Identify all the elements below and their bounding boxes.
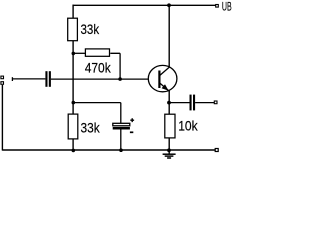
svg-text:UB: UB [222,2,232,14]
svg-text:10k: 10k [178,119,198,134]
svg-text:470k: 470k [85,60,111,75]
svg-text:33k: 33k [81,121,100,136]
svg-text:33k: 33k [81,22,100,37]
